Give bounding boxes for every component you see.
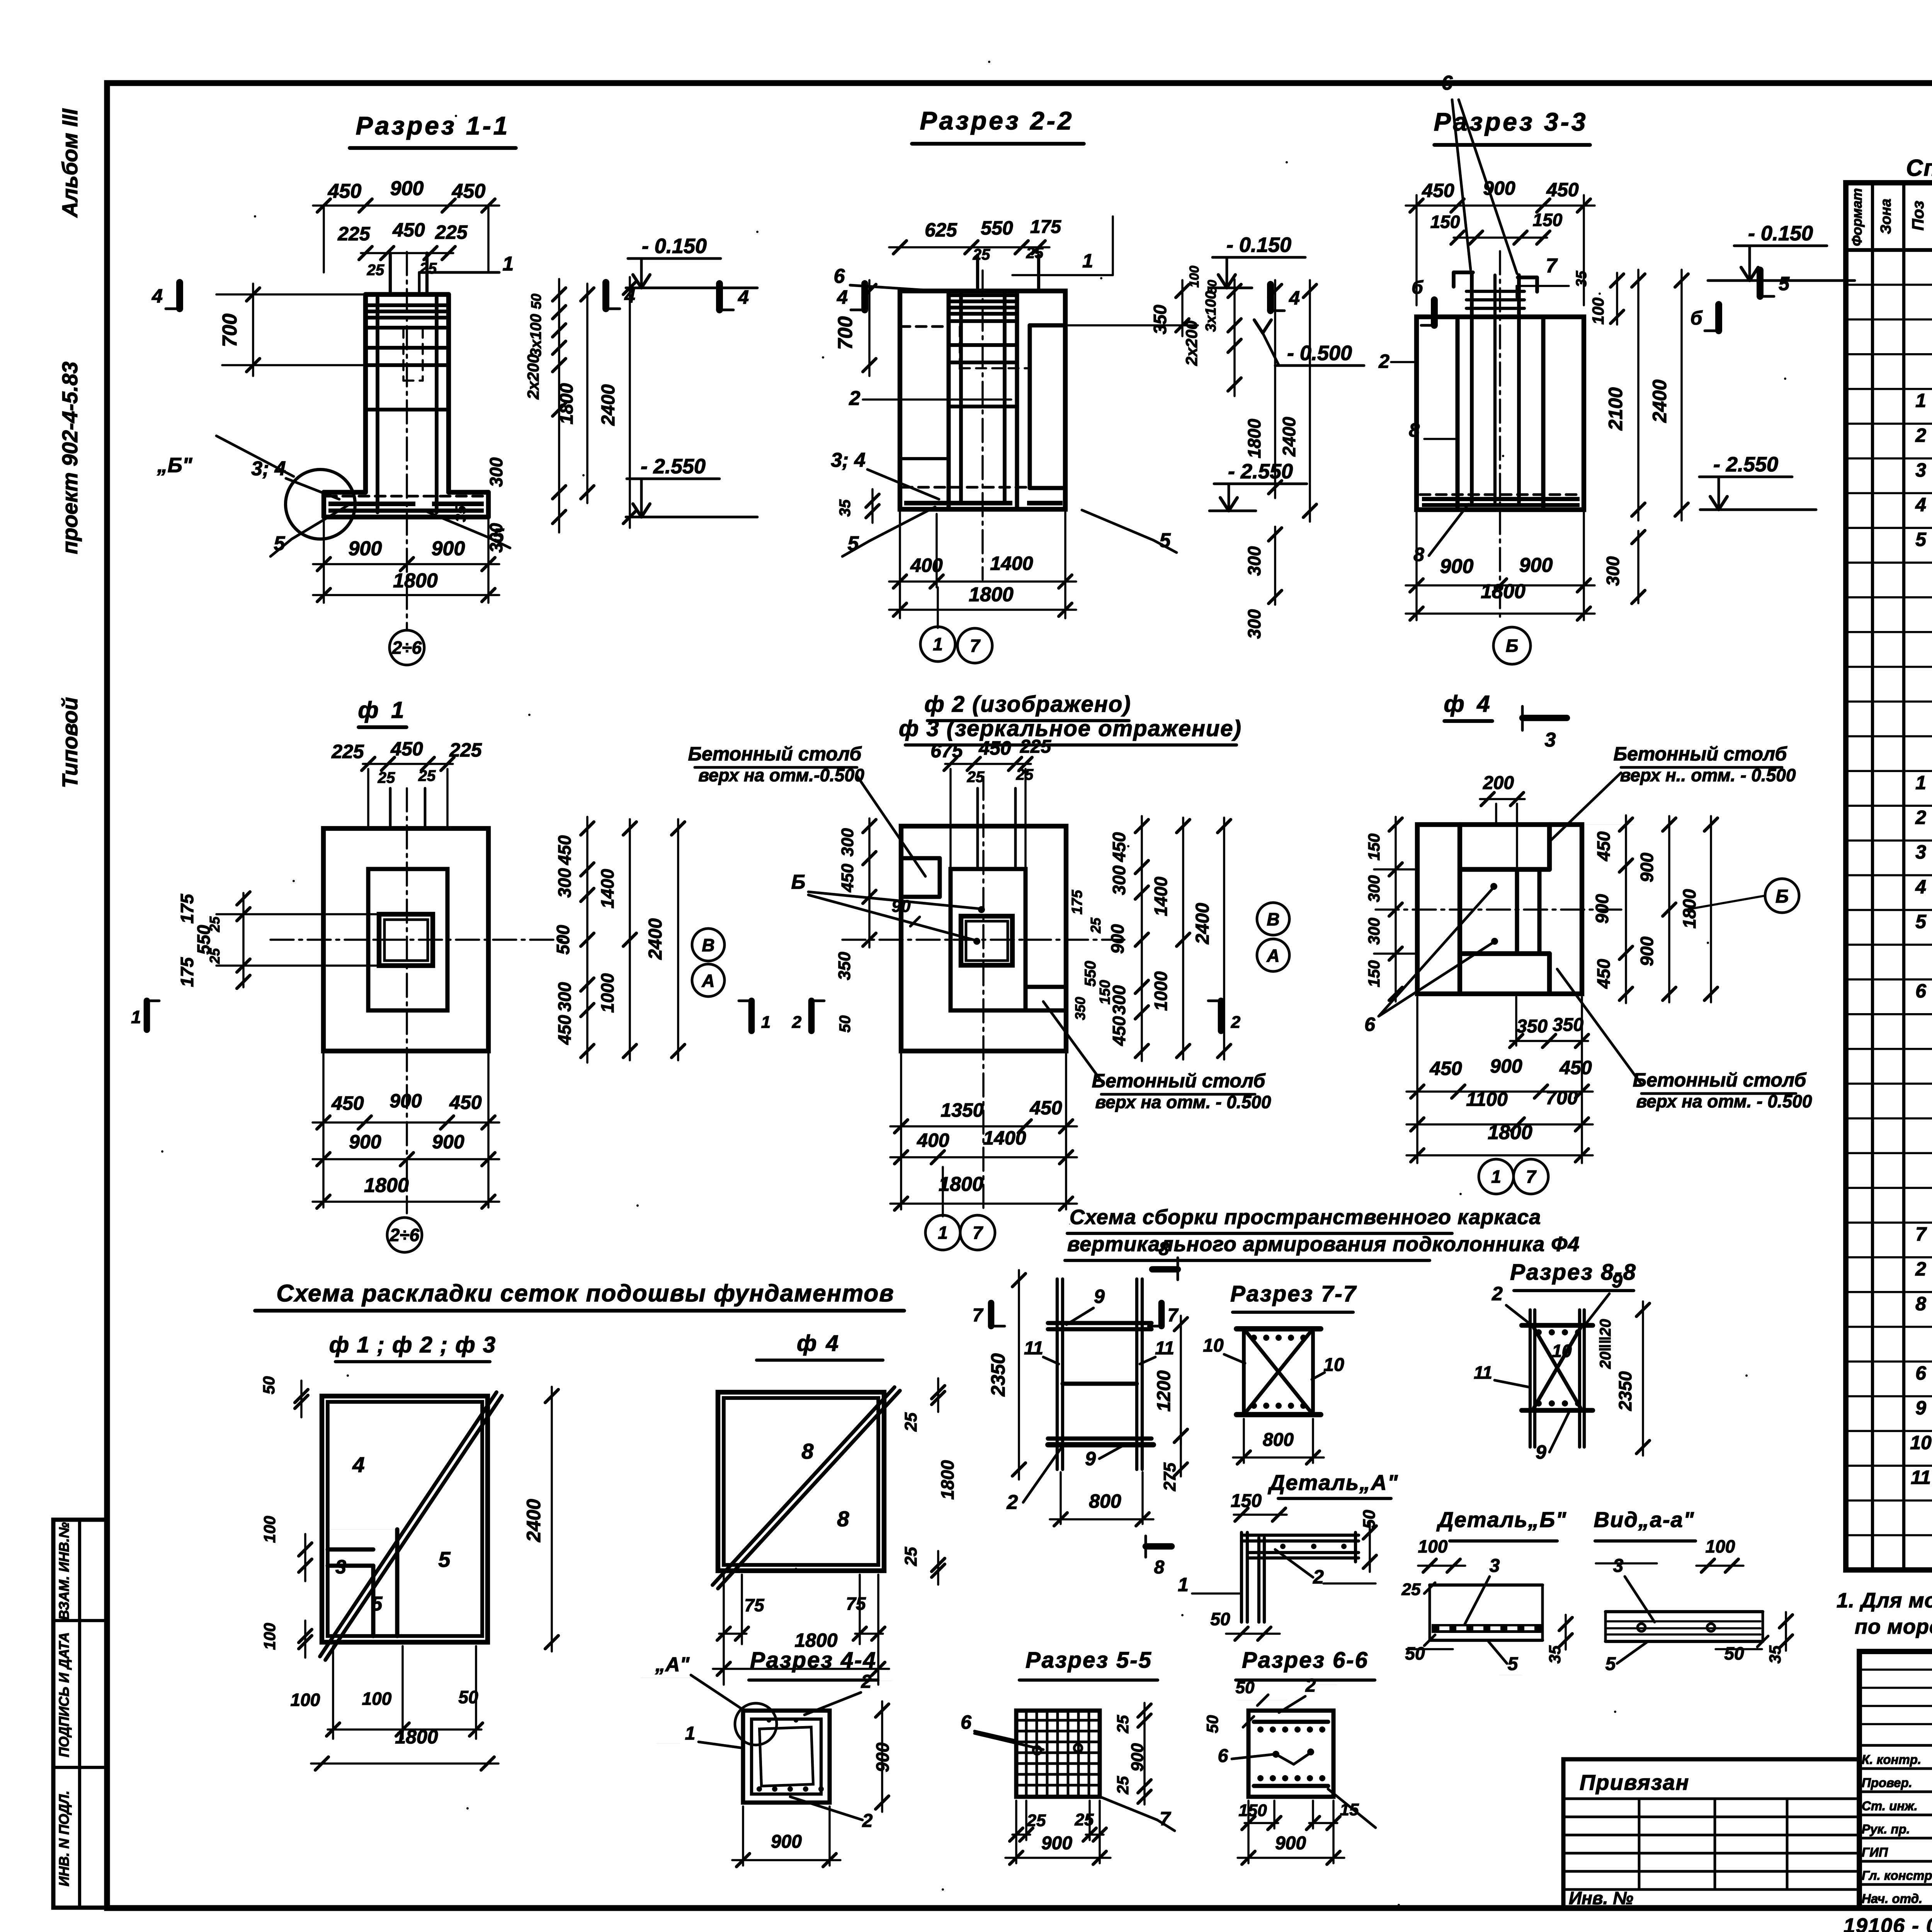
svg-text:25: 25 [967, 769, 985, 786]
svg-text:900: 900 [349, 537, 382, 560]
svg-text:1400: 1400 [990, 553, 1033, 574]
svg-text:8: 8 [1413, 544, 1424, 565]
svg-text:1000: 1000 [597, 973, 617, 1013]
cage dim 275 [1180, 1429, 1182, 1476]
svg-text:25: 25 [901, 1547, 920, 1566]
svg-text:5: 5 [1605, 1654, 1616, 1674]
section 2-2 column lines [947, 291, 951, 509]
mesh f1 dim 2400 right [551, 1387, 553, 1651]
cage section flags 7 [988, 1303, 995, 1326]
cage ladder top rungs [1048, 1321, 1151, 1325]
svg-text:50: 50 [260, 1376, 278, 1395]
svg-text:225: 225 [331, 741, 364, 762]
section 8-8 stud dots [1536, 1329, 1542, 1335]
plan f1 section mark T1 left [144, 1001, 150, 1030]
svg-text:ИНВ. N ПОДЛ.: ИНВ. N ПОДЛ. [56, 1791, 72, 1886]
section 8-8 dim 2350 [1642, 1301, 1644, 1456]
svg-text:2: 2 [1492, 1283, 1503, 1304]
svg-text:900: 900 [1637, 936, 1657, 966]
plan f4 inner vertical wall [1458, 825, 1462, 994]
svg-text:Поз: Поз [1909, 201, 1927, 230]
plan f1 socket outline [379, 914, 433, 966]
svg-text:8: 8 [801, 1439, 814, 1463]
cage section flags 8 [1152, 1266, 1178, 1273]
svg-text:2х200: 2х200 [524, 354, 542, 400]
svg-text:1: 1 [938, 1223, 948, 1243]
section 3-3 flag b right [1715, 304, 1722, 331]
svg-text:350: 350 [1150, 304, 1170, 334]
svg-text:300: 300 [554, 868, 575, 898]
svg-text:1: 1 [761, 1013, 770, 1032]
plan f4 leader dots to 6 [1490, 883, 1497, 890]
svg-text:700: 700 [1546, 1087, 1578, 1109]
svg-text:1. Для монолитных фундаментов: 1. Для монолитных фундаментов принята ма… [1837, 1589, 1932, 1612]
svg-text:2÷6: 2÷6 [392, 638, 422, 658]
svg-text:Разрез 2-2: Разрез 2-2 [920, 106, 1074, 135]
section 1-1 anchor bolts [389, 253, 392, 294]
section 1-1 dimension 1800 vertical [586, 284, 588, 503]
svg-text:25: 25 [1401, 1580, 1421, 1599]
svg-text:50: 50 [528, 294, 544, 309]
privyazan box outline [1563, 1759, 1859, 1908]
svg-text:Разрез 1-1: Разрез 1-1 [356, 111, 510, 140]
svg-text:175: 175 [1030, 217, 1061, 237]
detail A stud dots [1280, 1544, 1286, 1549]
svg-text:8: 8 [837, 1507, 849, 1531]
svg-text:- 2.550: - 2.550 [1228, 460, 1293, 483]
plan f2 section marks T1 2T left [748, 1001, 755, 1031]
svg-text:1350: 1350 [940, 1099, 983, 1121]
plan f4 bottom dimensions 450 900 450 [1416, 997, 1418, 1163]
svg-text:10: 10 [1323, 1355, 1344, 1375]
svg-text:35: 35 [1546, 1645, 1564, 1663]
section 2-2 flag 4 left [861, 284, 868, 310]
svg-text:2100: 2100 [1605, 387, 1626, 430]
svg-text:100: 100 [260, 1516, 279, 1543]
svg-text:А: А [1266, 946, 1279, 966]
svg-text:900: 900 [390, 177, 424, 200]
svg-text:450: 450 [1422, 180, 1454, 201]
section 2-2 node marks 1 7 [937, 587, 939, 628]
plan f4 node marks 1 7 [1479, 1159, 1514, 1194]
svg-text:25: 25 [1114, 1715, 1132, 1733]
plan f2 axes [842, 939, 1124, 941]
plan f2 bolts extension [976, 788, 979, 869]
section 5-5 anchor circles [1033, 1747, 1041, 1754]
plan f1 right chain 2400 [677, 819, 679, 1060]
plan f4 section mark 3 top [1522, 715, 1567, 721]
svg-text:300: 300 [554, 982, 575, 1012]
plan f1 right chain 450 300 500 300 450 [586, 817, 588, 1063]
svg-text:450: 450 [1559, 1057, 1592, 1078]
svg-text:350: 350 [1553, 1015, 1583, 1035]
section 2-2 label 1 with bracket [1012, 274, 1113, 276]
svg-text:3: 3 [1490, 1556, 1500, 1576]
svg-text:25: 25 [1088, 917, 1104, 934]
plan f1 bottom dimensions 450 900 450 [322, 1051, 325, 1207]
section 1-1 footing outline [324, 490, 366, 495]
section 8-8 top and bottom bars [1522, 1323, 1593, 1328]
plan f1 left dimensions 175 550 175 [216, 913, 379, 915]
svg-text:450: 450 [1029, 1097, 1062, 1119]
svg-text:300: 300 [1244, 546, 1264, 576]
svg-text:15: 15 [1340, 1800, 1359, 1819]
svg-text:450: 450 [1109, 832, 1129, 862]
section 6-6 box [1248, 1711, 1333, 1797]
svg-text:25: 25 [1026, 245, 1044, 262]
plan f4 right chain 900 900 [1668, 816, 1670, 1002]
svg-text:450: 450 [1594, 831, 1614, 861]
plan f4 right chain 1800 [1710, 816, 1712, 1002]
mesh f1 inner square [328, 1402, 482, 1636]
mesh f4 inner square [724, 1398, 878, 1565]
svg-text:Деталь„Б": Деталь„Б" [1436, 1507, 1567, 1532]
svg-text:625: 625 [925, 219, 957, 241]
svg-text:2400: 2400 [645, 918, 666, 960]
svg-text:2400: 2400 [1649, 379, 1670, 423]
svg-text:10: 10 [1910, 1432, 1932, 1453]
specification table row lines [1846, 284, 1932, 286]
section 4-4 dim 900 bottom [742, 1806, 744, 1866]
svg-text:7: 7 [973, 1305, 984, 1326]
svg-text:по морозостойкости Мрз 20: по морозостойкости Мрз 200, по водонепро… [1855, 1615, 1932, 1638]
svg-text:2400: 2400 [523, 1499, 544, 1542]
section 7-7 X braces [1244, 1329, 1313, 1415]
svg-text:верх на отм. - 0.500: верх на отм. - 0.500 [1636, 1091, 1812, 1111]
svg-text:5: 5 [1915, 911, 1927, 932]
section 1-1 left dimension 700 [216, 293, 363, 296]
svg-text:3: 3 [1613, 1556, 1624, 1576]
section 1-1 level flag 4 right [716, 284, 723, 310]
svg-text:900: 900 [1128, 1743, 1147, 1772]
plan f4 left ext lines [1374, 868, 1417, 871]
section 6-6 top bar with studs [1254, 1720, 1328, 1724]
section 3-3 footing dashed line [1420, 493, 1580, 496]
svg-text:3: 3 [1915, 841, 1926, 863]
svg-text:3: 3 [1545, 729, 1556, 751]
detail A corner bars vertical [1240, 1532, 1243, 1622]
section 2-2 centre axis [981, 270, 984, 580]
svg-text:25: 25 [901, 1412, 920, 1432]
svg-text:4: 4 [837, 286, 848, 308]
svg-text:В: В [1267, 909, 1279, 929]
svg-text:1: 1 [685, 1723, 696, 1744]
svg-text:1800: 1800 [1481, 580, 1526, 603]
section 3-3 bottom dimensions 900 900 [1415, 510, 1418, 620]
plan f1 node mark 2÷6 [387, 1218, 422, 1252]
svg-text:А: А [701, 971, 714, 991]
svg-text:4: 4 [352, 1452, 364, 1477]
svg-text:Зона: Зона [1878, 199, 1894, 234]
svg-text:1: 1 [933, 634, 943, 654]
svg-text:„А": „А" [655, 1653, 690, 1676]
mesh f4 outer square [718, 1392, 884, 1571]
svg-text:проект 902-4-5.83: проект 902-4-5.83 [58, 362, 82, 554]
cage ladder rails [1056, 1279, 1059, 1469]
view a-a bar outline [1605, 1610, 1763, 1613]
svg-text:25: 25 [207, 916, 223, 932]
svg-text:11: 11 [1024, 1338, 1043, 1359]
svg-text:700: 700 [834, 316, 857, 350]
section 1-1 bottom dimension 1800 [313, 594, 499, 596]
mesh f1 outer square [322, 1396, 488, 1642]
svg-text:9: 9 [1915, 1397, 1926, 1418]
svg-text:5: 5 [371, 1593, 383, 1615]
svg-text:6: 6 [1442, 72, 1453, 94]
svg-text:150: 150 [1097, 980, 1113, 1004]
plan f2 bottom dimensions 1350 450 [900, 1051, 902, 1209]
svg-text:100: 100 [1589, 298, 1607, 325]
svg-text:25: 25 [378, 769, 395, 786]
section 5-5 right chain 25 900 25 [1143, 1703, 1146, 1804]
section 8-8 X braces [1532, 1325, 1582, 1410]
svg-text:150: 150 [1533, 210, 1563, 230]
svg-text:Провер.: Провер. [1862, 1776, 1912, 1790]
svg-text:175: 175 [1069, 889, 1085, 914]
detail A end cap [1354, 1532, 1357, 1562]
svg-text:1800: 1800 [556, 383, 577, 424]
svg-text:300: 300 [1603, 556, 1623, 586]
svg-text:11: 11 [1155, 1338, 1174, 1359]
svg-text:- 0.150: - 0.150 [1748, 222, 1813, 245]
svg-text:1800: 1800 [969, 583, 1014, 606]
section 1-1 footing top dashed line [327, 495, 486, 498]
svg-text:6: 6 [1364, 1014, 1376, 1035]
section 3-3 ties above ground [1466, 290, 1524, 293]
svg-text:100: 100 [291, 1690, 320, 1710]
svg-text:2: 2 [1378, 350, 1389, 372]
svg-text:10: 10 [1552, 1341, 1572, 1361]
section 1-1 vertical rebar [376, 298, 379, 512]
svg-text:900: 900 [432, 537, 465, 560]
svg-text:25: 25 [1114, 1776, 1132, 1794]
section 5-5 mesh grid [1025, 1713, 1028, 1795]
svg-text:50: 50 [1203, 1715, 1221, 1733]
svg-text:Бетонный столб: Бетонный столб [1092, 1070, 1266, 1092]
svg-text:„Б": „Б" [157, 454, 193, 477]
section 2-2 flag 4 right [1267, 284, 1274, 311]
svg-text:7: 7 [1168, 1305, 1179, 1326]
section 7-7 stud dots [1251, 1335, 1257, 1341]
svg-text:9: 9 [1612, 1270, 1622, 1292]
section 1-1 right chain dimensions [558, 279, 560, 532]
plan f4 slot lines [1515, 869, 1519, 954]
svg-text:1: 1 [1491, 1167, 1501, 1187]
svg-text:б: б [1412, 277, 1423, 298]
svg-text:6: 6 [1915, 1362, 1927, 1384]
section 2-2 dimensions 300 300 [1274, 527, 1276, 605]
section 1-1 bottom dimensions 900 900 [323, 517, 325, 603]
svg-text:- 0.500: - 0.500 [1287, 342, 1352, 365]
svg-text:2: 2 [862, 1811, 873, 1831]
plan f4 left chain 150 300 300 150 [1395, 817, 1397, 1002]
svg-text:8: 8 [1915, 1293, 1926, 1315]
svg-text:25: 25 [1027, 1811, 1046, 1830]
svg-text:7: 7 [973, 1223, 983, 1243]
section 1-1 centre axis [406, 252, 408, 630]
svg-text:225: 225 [1020, 736, 1051, 757]
plan f2 right chain 1400 1000 [1182, 818, 1184, 1060]
svg-text:450: 450 [449, 1092, 482, 1113]
svg-text:К. контр.: К. контр. [1862, 1752, 1921, 1767]
svg-text:Б: Б [1776, 886, 1789, 907]
svg-text:450: 450 [1429, 1058, 1462, 1079]
plan f2 concrete post top-left [901, 856, 940, 861]
svg-text:- 2.550: - 2.550 [641, 455, 706, 478]
svg-text:4: 4 [1915, 876, 1926, 898]
svg-text:6: 6 [1915, 980, 1927, 1002]
svg-text:ф 4: ф 4 [797, 1331, 840, 1356]
section 3-3 body outline [1417, 317, 1584, 510]
svg-text:450: 450 [452, 180, 486, 202]
mesh f1 dividers [328, 1548, 373, 1552]
svg-text:2х200: 2х200 [1182, 321, 1201, 366]
svg-text:450: 450 [328, 180, 362, 202]
svg-text:2400: 2400 [1192, 903, 1213, 944]
svg-text:50: 50 [837, 1015, 854, 1033]
svg-text:11: 11 [1474, 1362, 1492, 1383]
svg-text:25: 25 [419, 260, 437, 277]
svg-text:11: 11 [1911, 1466, 1931, 1488]
svg-text:900: 900 [1107, 924, 1128, 954]
svg-text:Б: Б [791, 871, 806, 893]
svg-text:Разрез 6-6: Разрез 6-6 [1242, 1648, 1369, 1673]
svg-text:8: 8 [1154, 1557, 1165, 1578]
cage ladder bottom rungs [1048, 1437, 1151, 1441]
svg-text:9: 9 [1536, 1441, 1546, 1463]
section 1-1 column outline [363, 294, 368, 492]
svg-text:1200: 1200 [1154, 1370, 1174, 1412]
svg-text:900: 900 [349, 1131, 381, 1153]
svg-text:450: 450 [331, 1092, 364, 1114]
svg-text:25: 25 [207, 948, 223, 964]
svg-text:5: 5 [1915, 529, 1927, 550]
svg-text:Рук. пр.: Рук. пр. [1862, 1822, 1910, 1836]
svg-text:1400: 1400 [1151, 876, 1171, 916]
view a-a circles [1638, 1624, 1645, 1631]
section 2-2 anchor bolts [976, 255, 979, 291]
svg-text:25: 25 [1075, 1810, 1094, 1829]
svg-text:6: 6 [961, 1711, 972, 1733]
section 4-4 outer box [743, 1711, 830, 1803]
cage dim 1200 [1180, 1316, 1182, 1444]
privyazan grid lines [1563, 1798, 1859, 1800]
svg-text:1400: 1400 [983, 1127, 1026, 1149]
svg-text:3: 3 [335, 1556, 346, 1578]
svg-text:1800: 1800 [395, 1726, 438, 1748]
svg-text:275: 275 [1160, 1463, 1179, 1492]
section 1-1 dimension 2400 vertical [629, 277, 631, 528]
section 3-3 rebar columns with hooks [1470, 272, 1474, 502]
svg-text:1000: 1000 [1151, 971, 1171, 1011]
svg-text:Типовой: Типовой [58, 697, 82, 788]
svg-text:800: 800 [1089, 1490, 1121, 1512]
section 3-3 top dimensions 450 900 450 [1415, 195, 1418, 305]
svg-text:225: 225 [435, 221, 468, 243]
section 3-3 flag 5 right [1757, 270, 1764, 296]
svg-text:100: 100 [1187, 266, 1202, 288]
svg-text:35: 35 [1573, 270, 1590, 287]
svg-text:ф 1 ; ф 2 ; ф 3: ф 1 ; ф 2 ; ф 3 [329, 1332, 496, 1357]
section 4-4 dim 900 right [881, 1701, 883, 1812]
svg-text:500: 500 [553, 925, 573, 954]
section 2-2 footing mesh bars [904, 501, 1012, 505]
svg-text:7: 7 [1915, 1223, 1927, 1245]
svg-text:5: 5 [1508, 1654, 1519, 1674]
section 1-1 detail circle B [286, 469, 355, 539]
section 1-1 anchor dashed box [402, 328, 405, 381]
svg-text:9: 9 [1085, 1448, 1096, 1469]
plan f4 top bar lines [1460, 867, 1549, 872]
plan f2 right chain 2400 [1223, 818, 1225, 1060]
svg-text:450: 450 [392, 219, 425, 241]
svg-text:Формат: Формат [1849, 188, 1865, 246]
svg-text:900: 900 [1440, 555, 1474, 578]
svg-text:Бетонный столб: Бетонный столб [1633, 1069, 1807, 1091]
svg-text:1400: 1400 [597, 869, 617, 908]
svg-text:25: 25 [367, 262, 384, 279]
title block staff upper grid rows [1859, 1668, 1932, 1671]
svg-text:350: 350 [1072, 997, 1088, 1020]
svg-text:900: 900 [1041, 1833, 1072, 1854]
svg-text:Вид„а-а": Вид„а-а" [1594, 1507, 1695, 1532]
svg-text:150: 150 [1365, 960, 1383, 987]
plan f1 outer outline [323, 828, 488, 1051]
svg-text:2: 2 [1305, 1675, 1316, 1696]
plan f1 right chain 1400 1000 [629, 819, 631, 1060]
plan f2 right chain 450 300 900 300 450 [1141, 816, 1143, 1061]
section 1-1 section flags 4 [176, 282, 183, 309]
svg-text:8: 8 [1409, 419, 1420, 441]
svg-text:1800: 1800 [364, 1174, 409, 1197]
svg-text:1: 1 [131, 1007, 141, 1027]
specification table outer box [1846, 183, 1932, 1570]
plan f4 right chain 450 900 450 [1582, 824, 1634, 825]
svg-text:300: 300 [1244, 609, 1264, 639]
svg-text:3х100: 3х100 [1203, 291, 1219, 332]
svg-text:75: 75 [744, 1595, 765, 1615]
svg-text:3х100: 3х100 [527, 314, 544, 357]
plan f2 row circles В А right [1257, 903, 1289, 935]
svg-text:150: 150 [1430, 212, 1460, 232]
svg-text:8: 8 [1159, 1239, 1169, 1259]
svg-text:5: 5 [1779, 273, 1790, 294]
svg-text:3; 4: 3; 4 [831, 449, 866, 471]
svg-text:1100: 1100 [1466, 1088, 1508, 1110]
svg-text:2: 2 [1313, 1566, 1324, 1588]
svg-text:Бетонный столб: Бетонный столб [688, 743, 862, 765]
section 2-2 bottom dimensions 400 1400 [899, 509, 901, 618]
svg-text:Инв. №: Инв. № [1569, 1888, 1633, 1908]
svg-text:300: 300 [838, 828, 857, 857]
section 2-2 concrete post outline [1030, 323, 1065, 328]
svg-text:900: 900 [1483, 177, 1515, 199]
svg-text:2350: 2350 [987, 1353, 1009, 1396]
svg-text:верх н.. отм. - 0.500: верх н.. отм. - 0.500 [1620, 765, 1796, 785]
svg-text:50: 50 [1236, 1678, 1255, 1697]
svg-text:450: 450 [1546, 179, 1579, 201]
svg-text:Альбом III: Альбом III [58, 108, 82, 218]
section 6-6 middle anchors [1272, 1751, 1279, 1758]
section 2-2 bottom dimension 1800 [889, 609, 1076, 611]
svg-text:2400: 2400 [598, 384, 619, 426]
svg-text:2: 2 [849, 387, 861, 410]
svg-text:900: 900 [1490, 1055, 1522, 1077]
svg-text:1800: 1800 [937, 1460, 957, 1500]
mesh f4 diagonal [713, 1387, 895, 1585]
cage ladder middle rung [1063, 1382, 1137, 1386]
svg-text:ф 2 (изображено): ф 2 (изображено) [924, 692, 1131, 717]
